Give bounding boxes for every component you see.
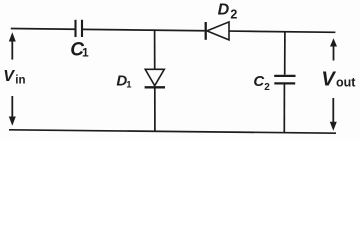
Vin up arrow shaft [11,41,13,60]
wire node B vertical (top wire to C2) [284,32,286,75]
Vout up arrow shaft [333,46,335,61]
capacitor C1 left plate [74,20,76,37]
Vout down arrowhead [330,122,337,131]
svg-text:out: out [336,76,356,90]
svg-text:D: D [218,2,230,19]
diode D2 triangle [207,22,229,40]
wire D1 cathode to bottom rail [154,88,156,131]
capacitor C2 bottom plate [274,82,295,84]
Vin up arrowhead [9,32,16,41]
svg-text:1: 1 [82,45,89,59]
wire bottom rail [9,130,336,133]
capacitor C1 right plate [81,20,83,37]
svg-text:2: 2 [264,82,270,93]
Vin down arrowhead [9,117,16,126]
capacitor C2 top plate [274,75,295,77]
svg-text:2: 2 [230,8,237,22]
Vout up arrowhead [330,38,337,46]
svg-text:V: V [3,68,15,85]
svg-text:in: in [15,75,25,87]
Vin down arrow shaft [11,96,13,118]
Vout down arrow shaft [332,98,334,123]
svg-text:V: V [321,69,336,91]
wire node A vertical (top wire to D1 anode) [154,29,156,69]
wire top-left (Vin+ to C1) [11,28,75,31]
diode D1 cathode bar [145,86,165,88]
diode D1 triangle [145,69,164,85]
svg-text:1: 1 [126,80,132,91]
diode D2 cathode bar [205,22,207,40]
wire top-right (D2 to Vout+) [229,31,335,32]
wire C2 to bottom rail [283,85,285,133]
wire top-middle (C1 to D2 cathode) [83,29,205,30]
